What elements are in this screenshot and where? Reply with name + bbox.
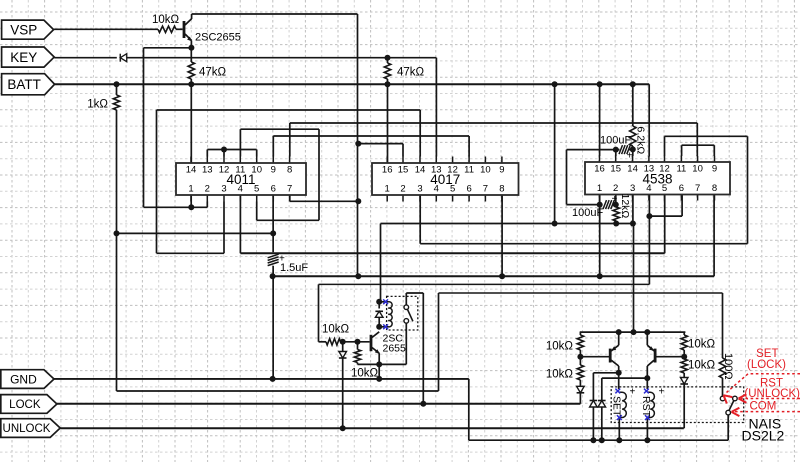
svg-text:1: 1 xyxy=(385,184,390,195)
svg-text:16: 16 xyxy=(594,164,605,175)
svg-text:BATT: BATT xyxy=(7,77,41,92)
svg-text:8: 8 xyxy=(712,183,717,194)
svg-text:9: 9 xyxy=(271,165,276,176)
svg-text:11: 11 xyxy=(464,165,474,176)
svg-text:8: 8 xyxy=(499,184,504,195)
svg-text:+: + xyxy=(630,387,636,398)
svg-text:6: 6 xyxy=(466,184,471,195)
svg-text:2: 2 xyxy=(613,183,618,194)
svg-text:12kΩ: 12kΩ xyxy=(619,194,631,219)
svg-text:+: + xyxy=(279,254,285,265)
svg-text:16: 16 xyxy=(382,165,393,176)
svg-text:13: 13 xyxy=(431,165,442,176)
svg-text:47kΩ: 47kΩ xyxy=(199,67,227,79)
svg-text:10kΩ: 10kΩ xyxy=(688,360,716,372)
svg-text:11: 11 xyxy=(676,164,686,175)
svg-text:7: 7 xyxy=(483,184,488,195)
svg-text:10: 10 xyxy=(692,164,703,175)
svg-text:9: 9 xyxy=(499,165,504,176)
svg-text:7: 7 xyxy=(695,183,700,194)
svg-text:47kΩ: 47kΩ xyxy=(397,67,425,79)
svg-text:10kΩ: 10kΩ xyxy=(322,324,350,336)
svg-text:3: 3 xyxy=(221,184,226,195)
svg-text:(LOCK): (LOCK) xyxy=(747,359,786,371)
svg-text:6: 6 xyxy=(271,184,276,195)
svg-text:12: 12 xyxy=(659,164,670,175)
svg-text:RST: RST xyxy=(640,396,652,418)
svg-text:100uF: 100uF xyxy=(572,207,603,219)
svg-text:3: 3 xyxy=(630,183,635,194)
svg-text:9: 9 xyxy=(712,164,717,175)
svg-text:5: 5 xyxy=(662,183,667,194)
svg-text:10kΩ: 10kΩ xyxy=(546,369,574,381)
svg-text:+: + xyxy=(612,194,618,205)
svg-text:12: 12 xyxy=(447,165,458,176)
svg-text:13: 13 xyxy=(644,164,655,175)
svg-text:COM: COM xyxy=(749,401,776,413)
svg-text:1: 1 xyxy=(597,183,602,194)
svg-text:2655: 2655 xyxy=(383,343,407,355)
svg-text:1: 1 xyxy=(188,184,193,195)
svg-text:+: + xyxy=(659,387,665,398)
svg-text:4: 4 xyxy=(646,183,651,194)
svg-text:10kΩ: 10kΩ xyxy=(688,339,716,351)
svg-text:2: 2 xyxy=(400,184,405,195)
svg-text:13: 13 xyxy=(202,165,213,176)
svg-text:10: 10 xyxy=(480,165,491,176)
svg-text:5: 5 xyxy=(450,184,455,195)
svg-text:+: + xyxy=(627,151,633,162)
svg-text:14: 14 xyxy=(186,165,197,176)
svg-text:12: 12 xyxy=(219,165,230,176)
svg-text:KEY: KEY xyxy=(10,50,37,65)
svg-text:10kΩ: 10kΩ xyxy=(351,368,379,380)
svg-text:3: 3 xyxy=(417,184,422,195)
svg-text:UNLOCK: UNLOCK xyxy=(3,423,51,435)
svg-text:1kΩ: 1kΩ xyxy=(87,99,108,111)
svg-text:10kΩ: 10kΩ xyxy=(546,341,574,353)
svg-text:GND: GND xyxy=(10,372,37,386)
svg-text:LOCK: LOCK xyxy=(9,399,41,411)
svg-text:6: 6 xyxy=(679,183,684,194)
svg-text:4: 4 xyxy=(434,184,439,195)
svg-text:5: 5 xyxy=(254,184,259,195)
svg-text:15: 15 xyxy=(398,165,409,176)
svg-text:10kΩ: 10kΩ xyxy=(152,14,180,26)
svg-text:7: 7 xyxy=(287,184,292,195)
svg-text:SET: SET xyxy=(611,396,623,417)
svg-text:14: 14 xyxy=(627,164,638,175)
svg-text:100uF: 100uF xyxy=(600,135,631,147)
svg-text:4: 4 xyxy=(238,184,243,195)
svg-text:10: 10 xyxy=(251,165,262,176)
svg-text:15: 15 xyxy=(610,164,621,175)
svg-text:11: 11 xyxy=(235,165,245,176)
svg-text:100Ω: 100Ω xyxy=(722,353,734,380)
svg-text:8: 8 xyxy=(287,165,292,176)
svg-text:2SC2655: 2SC2655 xyxy=(195,32,241,44)
svg-text:6.2kΩ: 6.2kΩ xyxy=(635,127,647,155)
svg-text:2: 2 xyxy=(205,184,210,195)
svg-text:DS2L2: DS2L2 xyxy=(742,427,785,443)
svg-text:14: 14 xyxy=(415,165,426,176)
svg-text:VSP: VSP xyxy=(10,23,37,38)
